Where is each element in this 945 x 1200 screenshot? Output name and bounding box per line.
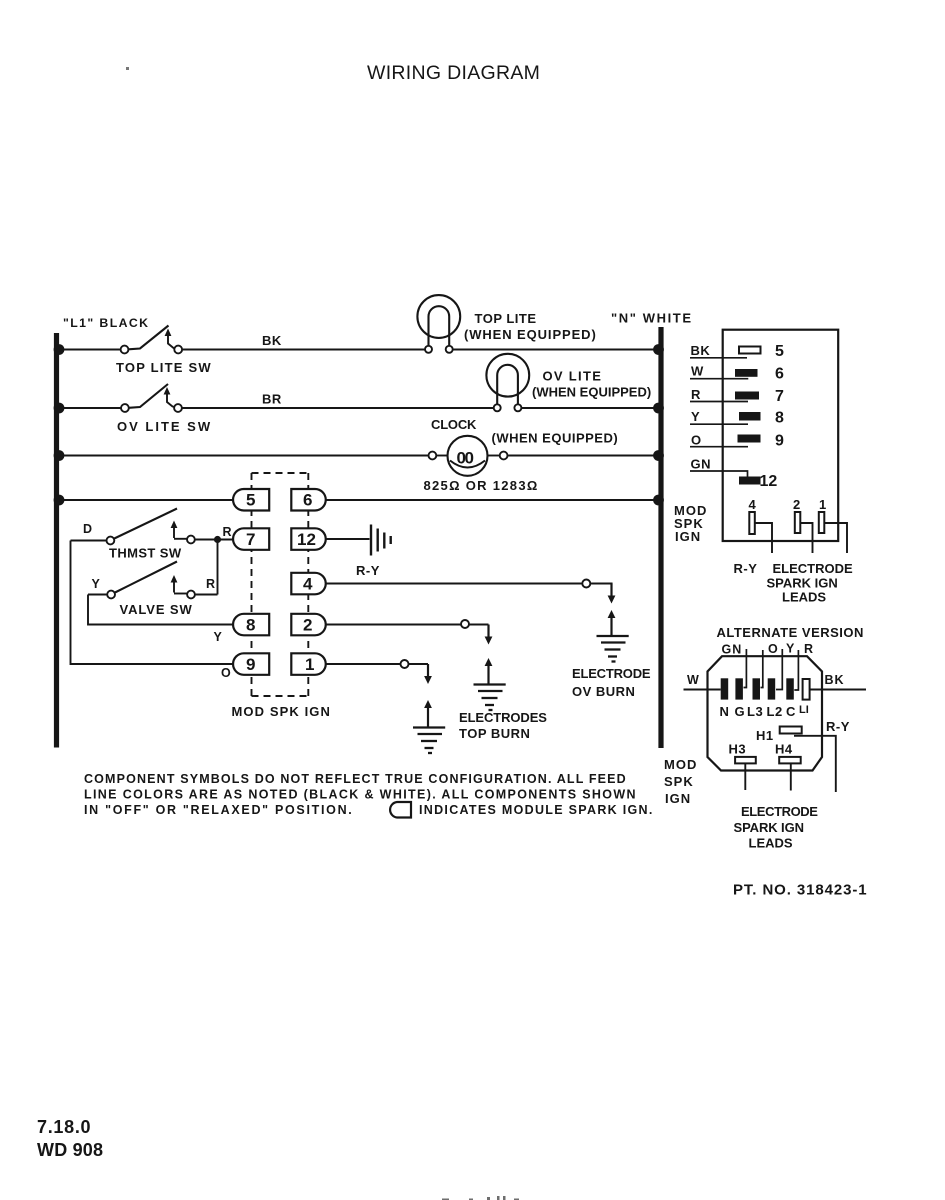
svg-text:5: 5 xyxy=(775,343,784,360)
module pin 9 xyxy=(233,653,269,675)
svg-text:ELECTRODE: ELECTRODE xyxy=(572,666,651,681)
bus L1 (left feed line, black) xyxy=(57,316,150,748)
bus N (right feed line, white) xyxy=(611,311,693,749)
junction L1-row3 xyxy=(54,450,65,461)
svg-text:ALTERNATE VERSION: ALTERNATE VERSION xyxy=(717,625,864,640)
svg-text:4: 4 xyxy=(303,575,313,594)
ground electrodes top burn (pin2) xyxy=(474,685,506,711)
terminal G xyxy=(735,678,746,719)
svg-text:C: C xyxy=(786,704,796,719)
switch OV LITE SW xyxy=(117,384,212,434)
module pin 12 xyxy=(291,528,325,550)
svg-text:R: R xyxy=(206,577,216,591)
svg-text:9: 9 xyxy=(775,433,784,450)
terminal N xyxy=(720,678,730,719)
terminal 8 xyxy=(739,410,784,427)
terminal L3 xyxy=(747,678,763,719)
svg-text:7.18.0: 7.18.0 xyxy=(37,1117,91,1137)
wire connector pin 1 lead xyxy=(824,523,847,553)
wire row4: bus L1 to pin 5 xyxy=(59,499,234,501)
svg-text:GN: GN xyxy=(691,457,712,472)
wire connector pin 2 lead xyxy=(800,523,812,553)
svg-text:R: R xyxy=(804,642,814,656)
lead W xyxy=(690,364,748,379)
terminal H4 xyxy=(775,742,801,764)
junction L1-row4 xyxy=(54,495,65,506)
module pin icon in note xyxy=(390,802,411,818)
junction L1-row1 xyxy=(54,344,65,355)
ground electrodes top burn (pin1) xyxy=(413,728,445,754)
junction N-row2 xyxy=(653,403,664,414)
svg-text:N: N xyxy=(720,704,730,719)
svg-text:12: 12 xyxy=(297,530,316,549)
terminal on pin1 wire xyxy=(401,660,409,668)
svg-text:PT. NO. 318423-1: PT. NO. 318423-1 xyxy=(733,882,867,899)
node Y / wire to VALVE SW xyxy=(88,577,107,595)
spark gap electrode OV burn xyxy=(608,584,616,636)
junction dot R xyxy=(214,536,221,543)
svg-text:G: G xyxy=(735,704,746,719)
wire row2: switch to lamp, label BR xyxy=(182,392,494,409)
lamp OV LITE xyxy=(486,354,651,411)
terminal 12 xyxy=(739,473,777,490)
module pin 8 xyxy=(233,614,269,636)
svg-text:5: 5 xyxy=(246,491,255,510)
svg-text:7: 7 xyxy=(246,530,255,549)
svg-text:TOP LITE SW: TOP LITE SW xyxy=(116,360,212,375)
connector pin 1 xyxy=(819,497,827,533)
svg-text:ELECTRODE: ELECTRODE xyxy=(773,561,854,576)
svg-text:MOD: MOD xyxy=(664,757,697,772)
svg-text:(WHEN EQUIPPED): (WHEN EQUIPPED) xyxy=(532,385,651,400)
svg-text:"L1" BLACK: "L1" BLACK xyxy=(63,316,149,330)
label ELECTRODE SPARK IGN LEADS (alternate) xyxy=(734,804,819,851)
svg-text:2: 2 xyxy=(303,616,312,635)
wire terminal to spark gap xyxy=(469,623,489,625)
partial text at bottom edge xyxy=(442,1196,519,1200)
wire H4 lead xyxy=(790,763,792,790)
label ELECTRODE OV BURN xyxy=(572,666,651,699)
svg-text:R: R xyxy=(223,525,233,539)
label MOD SPK IGN (connector) xyxy=(674,503,707,544)
svg-text:6: 6 xyxy=(775,366,784,383)
svg-text:LEADS: LEADS xyxy=(782,590,826,605)
wire terminal to spark gap xyxy=(409,663,429,665)
svg-text:O: O xyxy=(768,642,779,656)
svg-text:R-Y: R-Y xyxy=(734,561,758,576)
wire pin 2 to electrode top burn xyxy=(325,624,461,626)
connector MOD SPK IGN box xyxy=(723,330,839,541)
wire pin 1 to electrode top burn xyxy=(325,663,401,665)
svg-text:12: 12 xyxy=(760,473,778,490)
wire VALVE SW to junction R, label R xyxy=(195,577,218,595)
wire row1: switch to lamp, label BK xyxy=(182,333,425,350)
wire row1: lamp to bus N xyxy=(453,349,658,351)
terminal 9 xyxy=(738,433,785,450)
terminal L2 xyxy=(767,678,783,719)
svg-text:LEADS: LEADS xyxy=(749,836,793,851)
svg-text:4: 4 xyxy=(749,497,757,512)
alternate module outline (octagon) xyxy=(708,656,823,770)
wire row3: clock to bus N xyxy=(508,455,659,457)
wire row2: lamp to bus N xyxy=(521,407,658,409)
svg-text:GN: GN xyxy=(722,643,743,657)
svg-text:SPK: SPK xyxy=(664,774,694,789)
svg-text:8: 8 xyxy=(775,410,784,427)
junction N-row4 xyxy=(653,495,664,506)
clock motor CLOCK xyxy=(424,417,619,493)
lamp TOP LITE xyxy=(417,295,596,353)
wire node D down to pin 9, label O xyxy=(71,541,235,681)
svg-text:OV LITE: OV LITE xyxy=(543,369,603,384)
svg-text:Y: Y xyxy=(214,630,223,644)
svg-text:LI: LI xyxy=(799,704,809,716)
svg-text:LINE COLORS ARE AS NOTED (BLAC: LINE COLORS ARE AS NOTED (BLACK & WHITE)… xyxy=(84,788,637,802)
svg-text:THMST SW: THMST SW xyxy=(109,546,182,561)
wire H3 lead xyxy=(744,763,746,790)
svg-text:Y: Y xyxy=(786,642,795,656)
junction N-row3 xyxy=(653,450,664,461)
svg-text:WIRING DIAGRAM: WIRING DIAGRAM xyxy=(367,62,540,84)
svg-text:Y: Y xyxy=(92,577,101,591)
terminal LI xyxy=(799,679,810,716)
junction L1-row2 xyxy=(54,403,65,414)
svg-text:IGN: IGN xyxy=(665,791,691,806)
svg-text:825Ω OR 1283Ω: 825Ω OR 1283Ω xyxy=(424,478,539,493)
label ELECTRODES TOP BURN xyxy=(459,710,547,741)
wire terminal to spark gap xyxy=(590,584,611,585)
label MOD SPK IGN (alternate) xyxy=(664,757,697,806)
svg-text:"N" WHITE: "N" WHITE xyxy=(611,311,693,326)
wire pin 4 (R-Y) to electrode OV burn xyxy=(325,563,583,584)
svg-text:9: 9 xyxy=(246,655,255,674)
svg-text:D: D xyxy=(83,522,93,536)
terminal on pin2 wire xyxy=(461,620,469,628)
svg-text:BK: BK xyxy=(262,333,282,348)
svg-text:L3: L3 xyxy=(747,704,763,719)
switch THMST SW xyxy=(107,509,195,561)
wire W (alternate) xyxy=(684,673,721,690)
svg-text:BK: BK xyxy=(691,343,711,358)
terminal 7 xyxy=(735,388,784,405)
switch TOP LITE SW xyxy=(116,326,212,376)
note paragraph xyxy=(84,772,654,817)
spark gap electrodes top burn (pin2) xyxy=(485,625,493,684)
module outline MOD SPK IGN (dashed) xyxy=(252,473,309,696)
terminal C xyxy=(786,678,796,719)
svg-text:R-Y: R-Y xyxy=(356,563,380,578)
wire row3: bus L1 to clock xyxy=(59,455,429,457)
lead O xyxy=(690,433,748,448)
wire junction R down to valve sw xyxy=(217,540,219,595)
svg-text:R: R xyxy=(691,387,701,402)
svg-text:OV BURN: OV BURN xyxy=(572,684,635,699)
footer drawing number xyxy=(37,1117,103,1160)
wire BK (alternate) xyxy=(810,673,866,690)
terminal H1 xyxy=(756,727,802,744)
terminal 6 xyxy=(735,366,784,383)
svg-text:BR: BR xyxy=(262,392,282,407)
chassis ground (module, sideways) xyxy=(371,525,391,556)
svg-text:R-Y: R-Y xyxy=(826,719,850,734)
svg-text:1: 1 xyxy=(819,497,827,512)
wire row4: pin 6 to bus N xyxy=(325,499,658,501)
wire row1: bus L1 to TOP LITE SW xyxy=(59,349,121,351)
svg-text:H4: H4 xyxy=(775,742,793,757)
svg-text:8: 8 xyxy=(246,616,255,635)
module pin 5 xyxy=(233,489,269,511)
ground electrode OV burn xyxy=(597,636,629,662)
svg-text:IN "OFF" OR "RELAXED" POSITION: IN "OFF" OR "RELAXED" POSITION. xyxy=(84,803,353,817)
svg-text:VALVE SW: VALVE SW xyxy=(120,602,193,617)
svg-text:Y: Y xyxy=(691,409,700,424)
svg-text:WD 908: WD 908 xyxy=(37,1140,103,1160)
module pin 2 xyxy=(291,614,325,636)
svg-text:ELECTRODES: ELECTRODES xyxy=(459,710,547,725)
svg-text:O: O xyxy=(691,433,702,448)
svg-text:W: W xyxy=(687,673,700,687)
lead BK xyxy=(690,343,747,358)
svg-text:(WHEN EQUIPPED): (WHEN EQUIPPED) xyxy=(464,327,597,342)
svg-text:OV LITE SW: OV LITE SW xyxy=(117,419,212,434)
lead GN xyxy=(690,457,748,478)
svg-text:7: 7 xyxy=(775,388,784,405)
wire THMST to pin 7 with node R xyxy=(195,525,234,540)
svg-text:(WHEN EQUIPPED): (WHEN EQUIPPED) xyxy=(492,431,619,446)
wire connector pin 4 lead xyxy=(755,523,772,553)
wire O (alternate) xyxy=(761,642,779,688)
svg-text:TOP LITE: TOP LITE xyxy=(475,311,537,326)
svg-text:2: 2 xyxy=(793,497,801,512)
wire H1 to R-Y xyxy=(794,719,850,792)
svg-text:O: O xyxy=(221,666,232,680)
svg-text:L2: L2 xyxy=(767,704,783,719)
svg-text:H3: H3 xyxy=(729,742,747,757)
svg-text:IGN: IGN xyxy=(675,529,701,544)
svg-text:BK: BK xyxy=(825,673,845,687)
connector pin 2 xyxy=(793,497,801,533)
wire Y (alternate) xyxy=(776,642,795,690)
terminal on R-Y wire xyxy=(582,580,590,588)
module pin 4 xyxy=(291,573,325,595)
terminal 5 xyxy=(739,343,784,360)
terminal H3 xyxy=(729,742,756,764)
svg-text:SPARK IGN: SPARK IGN xyxy=(734,820,804,835)
connector pin 4 xyxy=(749,497,757,534)
svg-text:H1: H1 xyxy=(756,728,774,743)
wire pin 12 to chassis ground xyxy=(325,538,370,540)
junction N-row1 xyxy=(653,344,664,355)
module pin 7 xyxy=(233,528,269,550)
svg-text:CLOCK: CLOCK xyxy=(431,417,477,432)
svg-text:ELECTRODE: ELECTRODE xyxy=(741,804,818,819)
svg-text:00: 00 xyxy=(457,449,474,468)
label R-Y electrode spark ign leads xyxy=(734,561,854,605)
node D / wire to THMST SW xyxy=(71,522,107,541)
module pin 1 xyxy=(291,653,325,675)
module pin 6 xyxy=(291,489,325,511)
svg-text:W: W xyxy=(691,364,704,379)
spark gap electrodes top burn (pin1) xyxy=(424,664,432,727)
svg-text:INDICATES MODULE SPARK IGN.: INDICATES MODULE SPARK IGN. xyxy=(419,803,654,817)
svg-text:TOP BURN: TOP BURN xyxy=(459,726,530,741)
svg-text:COMPONENT SYMBOLS DO NOT REFLE: COMPONENT SYMBOLS DO NOT REFLECT TRUE CO… xyxy=(84,772,627,786)
svg-text:1: 1 xyxy=(305,655,314,674)
svg-text:6: 6 xyxy=(303,491,312,510)
wire GN (alternate) xyxy=(722,643,747,688)
svg-text:MOD SPK IGN: MOD SPK IGN xyxy=(232,704,332,719)
wire row2: bus L1 to OV LITE SW xyxy=(59,407,121,409)
lead R xyxy=(690,387,748,402)
scan speck xyxy=(126,67,129,70)
lead Y xyxy=(690,409,748,424)
svg-text:SPARK IGN: SPARK IGN xyxy=(767,576,838,591)
wire R (alternate) xyxy=(794,642,814,690)
wire VALVE left leg down to pin 8, label Y xyxy=(88,595,234,645)
switch VALVE SW xyxy=(107,562,195,618)
